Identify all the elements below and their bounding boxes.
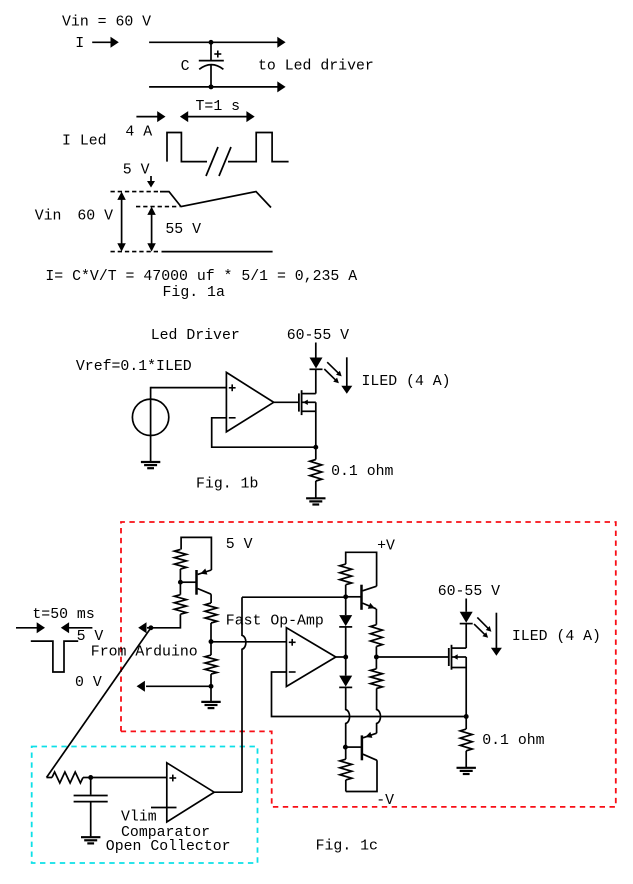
node divider mid <box>209 639 214 644</box>
svg-text:Fig. 1b: Fig. 1b <box>196 477 258 493</box>
wire base Q2 <box>180 581 195 583</box>
capacitor C top plate <box>199 60 224 62</box>
wire node2 to ground <box>210 686 212 702</box>
svg-text:From Arduino: From Arduino <box>91 645 198 661</box>
wire clamp node to D3 <box>345 597 347 615</box>
node clamp top <box>343 594 348 599</box>
transistor Q2 collector <box>198 589 212 595</box>
wire gate node to R8 <box>375 657 377 669</box>
wire LED anode <box>315 343 317 358</box>
resistor R4 <box>205 603 217 623</box>
op-amp U1 <box>226 372 273 431</box>
ground under R1 <box>306 497 325 499</box>
node comparator plus <box>88 775 93 780</box>
resistor R2 upper left <box>174 550 186 570</box>
ground under C2 <box>81 836 100 838</box>
svg-text:5 V: 5 V <box>123 163 150 179</box>
node input junction <box>148 625 153 630</box>
resistor R11 comparator input <box>52 772 83 783</box>
svg-text:5 V: 5 V <box>77 629 104 645</box>
wire U1 minus feedback <box>212 418 316 447</box>
period double arrow T <box>180 111 188 122</box>
transistor Q3 bar <box>360 585 363 610</box>
wire cap bottom lead <box>210 65 212 87</box>
led D1 light arrows <box>327 362 339 374</box>
led D1 fig1b <box>310 358 323 369</box>
mosfet Q5 channel bar <box>451 645 453 670</box>
mosfet Q1 channel bar <box>301 390 303 415</box>
wire R10 to ground <box>465 751 467 768</box>
svg-text:ILED (4 A): ILED (4 A) <box>512 629 601 645</box>
wire R4 to node <box>210 623 212 642</box>
svg-text:Open Collector: Open Collector <box>106 839 231 855</box>
op-amp U3 plus sign <box>169 777 176 779</box>
arrow 0V stub <box>146 685 211 687</box>
wire U1 output to gate <box>274 401 299 403</box>
wire output node to D4 <box>345 657 347 676</box>
wire Q4 collector to -V <box>346 760 377 791</box>
svg-text:Fig. 1c: Fig. 1c <box>316 839 378 855</box>
arrow ILED fig1b <box>346 357 348 389</box>
svg-text:60 V: 60 V <box>77 209 113 225</box>
arrow ILED fig1c <box>495 613 497 651</box>
wire R2 to node <box>179 569 181 582</box>
capacitor C curved plate <box>199 65 223 70</box>
arrow small down to dashed level <box>150 176 152 184</box>
wire bottom line with arrow <box>149 86 281 88</box>
wire Q5 source down <box>465 657 467 717</box>
mosfet Q1 source tap <box>302 410 316 412</box>
ramp waveform Vin <box>160 192 271 208</box>
wire comparator output top to clamp node <box>242 596 346 598</box>
node Rsense fig1c <box>464 714 469 719</box>
svg-text:t=50 ms: t=50 ms <box>32 607 94 623</box>
node base divider <box>178 580 183 585</box>
svg-text:C: C <box>181 59 190 75</box>
svg-text:I: I <box>75 36 84 52</box>
svg-text:60-55 V: 60-55 V <box>438 584 500 600</box>
wire R3 to input node <box>152 614 181 628</box>
wire clamp bottom to R9 <box>345 747 347 759</box>
node junction source/Rsense <box>313 445 318 450</box>
pulse width arrow left <box>16 627 40 629</box>
svg-text:Led Driver: Led Driver <box>151 328 240 344</box>
dimension arrow 60V <box>117 192 126 200</box>
op-amp U1 minus sign <box>229 417 236 419</box>
op-amp U1 plus sign <box>229 387 236 389</box>
svg-text:4 A: 4 A <box>125 124 152 140</box>
svg-text:0 V: 0 V <box>75 675 102 691</box>
resistor R8 <box>370 669 382 689</box>
resistor R3 lower left <box>174 595 186 615</box>
capacitor C plus sign <box>214 53 221 55</box>
led D5 light arrows <box>477 617 489 629</box>
rail +V top bar <box>346 552 377 586</box>
wire gate node to Q5 <box>376 656 448 658</box>
op-amp U2 minus sign <box>289 671 296 673</box>
node junction top of C <box>209 40 214 45</box>
wire R1 to ground <box>315 481 317 498</box>
svg-text:Fast Op-Amp: Fast Op-Amp <box>226 614 324 630</box>
mosfet Q1 gate bar <box>298 393 300 411</box>
svg-text:Vin = 60 V: Vin = 60 V <box>62 15 151 31</box>
capacitor C2 plates <box>74 795 108 797</box>
wire node to R1 <box>315 447 317 459</box>
svg-text:55 V: 55 V <box>165 222 201 238</box>
voltage source V1 circle <box>132 399 168 435</box>
resistor R1 0.1 ohm <box>310 460 322 482</box>
red dashed boundary box <box>121 522 616 807</box>
dashed level 0V <box>111 251 159 253</box>
node junction bottom of C <box>209 84 214 89</box>
wire Vref to op-amp plus input <box>151 387 227 389</box>
op-amp U2 <box>286 628 335 687</box>
resistor R5 <box>205 655 217 674</box>
mosfet Q5 drain tap <box>452 647 466 649</box>
op-amp U3 comparator <box>167 763 214 822</box>
current direction arrow <box>92 41 114 43</box>
svg-text:-V: -V <box>376 793 394 809</box>
resistor R6 clamp top <box>340 564 352 585</box>
ground under divider <box>201 701 220 703</box>
svg-text:Vlim: Vlim <box>121 810 157 826</box>
wire U2 output <box>336 656 346 658</box>
mosfet Q5 source tap <box>452 667 466 669</box>
comparator output vertical wire <box>242 597 246 792</box>
svg-text:I Led: I Led <box>62 134 107 150</box>
svg-text:Vref=0.1*ILED: Vref=0.1*ILED <box>76 359 192 375</box>
wire base Q4 <box>345 746 361 748</box>
wire C2 to ground <box>90 802 92 838</box>
cyan dashed comparator box <box>32 747 258 864</box>
wire R3 top <box>179 582 181 595</box>
svg-text:T=1 s: T=1 s <box>196 99 241 115</box>
transistor Q4 emitter with arrow <box>363 733 377 738</box>
wire Q3 emitter to R7 <box>375 609 377 625</box>
wire R7 to gate node <box>375 646 377 657</box>
wire U3 minus stub and minus sign <box>151 807 177 809</box>
wire R9 to -V corner <box>345 780 347 792</box>
wire LED D5 anode <box>465 599 467 612</box>
svg-text:Vin: Vin <box>35 209 62 225</box>
transistor Q3 emitter with arrow <box>363 603 377 609</box>
diagonal wire comparator to input node <box>47 628 151 778</box>
ground under V1 <box>141 461 160 463</box>
arrow before period marker <box>136 116 160 118</box>
op-amp U2 plus sign <box>289 641 296 643</box>
wire R6 to clamp node <box>345 585 347 597</box>
svg-text:ILED (4 A): ILED (4 A) <box>362 374 451 390</box>
wire node to C2 <box>90 778 92 795</box>
mosfet Q5 gate bar <box>448 648 450 666</box>
waveform I Led pulse train <box>167 133 207 162</box>
wire node to R5 <box>210 642 212 656</box>
dashed level 60V <box>111 191 159 193</box>
waveform arduino pulse <box>31 641 78 672</box>
arrow input stub <box>147 627 151 629</box>
diode D3 <box>339 615 352 626</box>
node U2 output <box>343 655 348 660</box>
dimension arrow 55V <box>147 207 156 215</box>
wire drain to LED <box>315 370 317 394</box>
dashed level 55V <box>136 206 180 208</box>
resistor R7 <box>370 625 382 647</box>
wire through source V1 <box>150 387 152 462</box>
waveform break slashes <box>206 147 218 176</box>
transistor Q4 collector <box>363 754 377 760</box>
node divider low <box>209 684 214 689</box>
wire D5 to Q5 drain <box>465 624 467 648</box>
pulse width arrow right <box>66 627 93 629</box>
node clamp bottom <box>343 745 348 750</box>
svg-text:Fig. 1a: Fig. 1a <box>163 285 225 301</box>
resistor R10 0.1 ohm <box>460 729 472 751</box>
wire R5 to node2 <box>210 674 212 686</box>
ground under R10 <box>457 767 476 769</box>
svg-text:I= C*V/T = 47000 uf * 5/1 = 0,: I= C*V/T = 47000 uf * 5/1 = 0,235 A <box>45 269 357 285</box>
wire node to U3 plus <box>91 777 168 779</box>
wire R11 to node <box>83 777 91 779</box>
svg-text:60-55 V: 60-55 V <box>287 328 349 344</box>
rail 5V top bar <box>181 537 211 570</box>
wire U3 output up <box>214 791 242 793</box>
mosfet Q1 drain tap <box>302 393 316 395</box>
wire node to R10 <box>465 717 467 730</box>
wire plus input <box>211 641 286 643</box>
wire D4 down with hop <box>346 688 350 748</box>
wire source down to node <box>315 402 317 447</box>
mosfet Q5 body arrow tap <box>452 656 466 658</box>
wire R8 down with hop <box>377 689 381 734</box>
transistor Q4 bar <box>361 735 364 760</box>
wire collector Q2 down <box>210 594 212 603</box>
resistor R9 <box>340 759 352 780</box>
wire D3 to output node <box>345 627 347 657</box>
svg-text:to Led driver: to Led driver <box>258 59 374 75</box>
wire diag end to R11 <box>47 777 53 779</box>
svg-text:+V: +V <box>377 539 395 555</box>
svg-text:5 V: 5 V <box>226 537 253 553</box>
transistor Q2 emitter with arrow <box>198 570 212 574</box>
mosfet Q1 body arrow tap <box>302 401 316 403</box>
wire U2 minus feedback <box>272 672 467 717</box>
transistor Q3 collector <box>363 586 377 591</box>
wire top input line with arrow <box>149 41 281 43</box>
node gate drive <box>374 655 379 660</box>
led D5 <box>460 612 473 623</box>
svg-text:0.1 ohm: 0.1 ohm <box>482 733 544 749</box>
baseline 0V solid <box>162 251 273 253</box>
diode D4 <box>339 676 352 687</box>
wire cap top lead <box>210 42 212 60</box>
svg-text:0.1 ohm: 0.1 ohm <box>331 464 393 480</box>
wire base Q3 <box>346 596 361 598</box>
transistor Q2 bar <box>195 570 198 595</box>
